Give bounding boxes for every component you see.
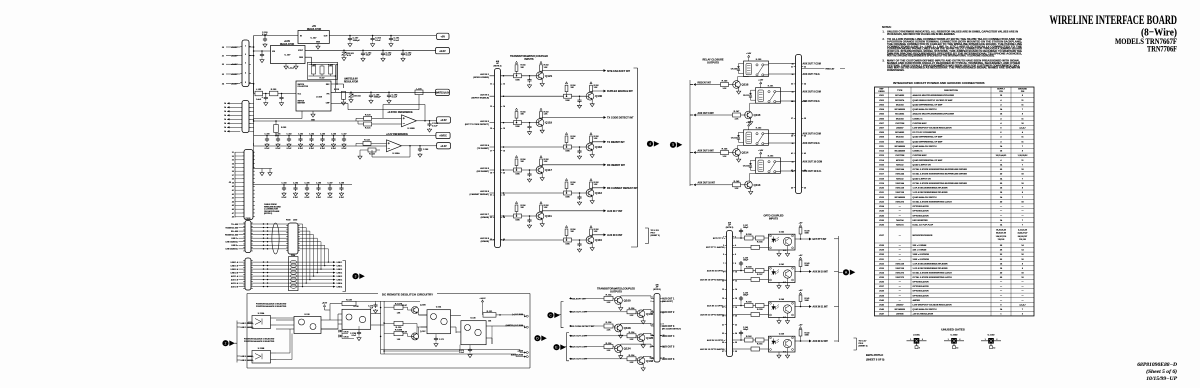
svg-text:U121: U121 [879,192,885,194]
wire collector Q100 [621,296,654,299]
svg-text:AUX IN 10 OPTO +: AUX IN 10 OPTO + [707,269,726,272]
wire opto row U-142 [733,238,769,247]
svg-text:LINE 4: LINE 4 [337,285,343,288]
svg-text:45: 45 [791,186,793,189]
svg-text:Q111: Q111 [545,214,552,218]
svg-text:MC3303: MC3303 [896,141,905,143]
svg-text:(NOTE 2): (NOTE 2) [653,289,661,291]
svg-text:AUX OUT 8 COM: AUX OUT 8 COM [803,91,821,94]
svg-text:CR-111: CR-111 [743,95,749,97]
svg-text:14: 14 [224,122,226,125]
svg-text:18: 18 [503,150,505,152]
resistor R118 [342,91,346,99]
svg-text:OCTAL 3-STATE NONINVERTING BUF: OCTAL 3-STATE NONINVERTING BUFFER/LINE D… [913,168,968,171]
svg-text:RX INHIBIT INT: RX INHIBIT INT [607,164,625,167]
svg-text:OPTOISOLATOR: OPTOISOLATOR [913,281,930,284]
svg-text:1: 1 [985,339,986,341]
svg-text:OUTPUTS: OUTPUTS [610,291,622,294]
svg-text:TX+ 600: TX+ 600 [231,224,238,226]
svg-text:RX CABINET REPEAT INT: RX CABINET REPEAT INT [607,187,638,190]
svg-text:37: 37 [232,175,234,177]
ground opto U-141 [779,278,788,284]
svg-text:LINE 3: LINE 3 [337,276,343,278]
svg-text:GND: GND [316,41,321,43]
svg-text:OCTAL 3-STATE NONINVERTING BUF: OCTAL 3-STATE NONINVERTING BUFFER/LINE D… [913,182,968,185]
resistor R-159 [756,304,765,308]
supply +14V K-103 [760,152,762,154]
capacitor C166 [369,93,373,98]
svg-text:(Sheet 5 of 6): (Sheet 5 of 6) [1146,368,1177,375]
resistor R139 deglitch [342,301,356,305]
svg-text:20: 20 [735,316,737,318]
svg-text:POSITION BALANCE 1 SELECTED: POSITION BALANCE 1 SELECTED [244,338,275,341]
svg-text:12: 12 [503,84,505,86]
svg-text:0.1uF: 0.1uF [406,55,412,57]
svg-text:74HC138: 74HC138 [895,187,905,190]
output arrow Q130 [604,90,607,93]
node 2 balloon [222,340,228,346]
svg-text:R-160: R-160 [746,302,753,304]
svg-text:EXT PTT 1 +: EXT PTT 1 + [713,238,726,240]
svg-text:LINE 2+: LINE 2+ [231,245,238,247]
svg-text:Q113: Q113 [754,183,761,187]
svg-text:U147: U147 [879,313,885,316]
svg-text:DUPLEX ENABLE INT: DUPLEX ENABLE INT [607,90,633,93]
svg-text:2: 2 [922,339,923,341]
svg-text:100K: 100K [515,126,520,128]
svg-text:41: 41 [791,152,793,155]
svg-text:R-106: R-106 [311,65,316,67]
svg-text:100K: 100K [515,174,520,176]
ground emitter Q110 [591,243,593,246]
svg-text:Q110: Q110 [595,238,602,242]
resistor base Q108 [604,324,613,328]
svg-text:TRN7706F: TRN7706F [1147,43,1177,53]
svg-text:34: 34 [792,90,794,93]
svg-text:14: 14 [224,106,226,109]
svg-text:U108: U108 [879,132,885,134]
svg-text:U107: U107 [879,128,885,130]
wire +2.2V ref input [254,143,387,146]
svg-text:(CABINET REPEAT): (CABINET REPEAT) [470,193,490,196]
net label +5VDC [436,132,450,138]
wire opto row U-139 [733,340,769,349]
svg-text:44: 44 [804,169,806,172]
resistor R123 [368,148,376,152]
svg-text:AUX OUT 10 COM: AUX OUT 10 COM [803,161,823,164]
svg-text:16: 16 [503,128,505,130]
transistor Q119 [536,119,544,127]
svg-text:35: 35 [791,101,793,103]
svg-text:0.1uF: 0.1uF [392,97,398,99]
svg-text:1000pF: 1000pF [374,97,382,99]
svg-text:100K: 100K [805,265,810,267]
svg-text:MC3303: MC3303 [896,137,905,139]
wire collector Q115 [750,103,761,111]
svg-text:74HC32: 74HC32 [896,177,904,180]
connector J101 [242,101,249,133]
svg-text:CUSTOM: CUSTOM [895,155,904,157]
svg-text:R-158: R-158 [746,267,753,269]
transistor Q110 [586,236,594,244]
capacitor C170 [373,303,377,308]
wire deglitch lower outputs [491,326,493,344]
twisted pair loops [290,260,296,263]
resistor array R106-R108 [308,62,338,79]
svg-text:AMPER: AMPER [913,299,921,302]
svg-text:3: 3 [355,275,357,279]
svg-text:CR-05: CR-05 [344,331,349,333]
wire J102 left bus [234,152,236,218]
svg-text:C-162: C-162 [287,133,292,135]
svg-text:AUX IN 8: AUX IN 8 [480,237,490,240]
svg-text:AUX IN 10 OPTO &#8722;: AUX IN 10 OPTO &#8722; [700,278,725,281]
svg-text:14: 14 [224,130,226,133]
wire fan from P300 [298,224,303,287]
svg-text:1-OF-8 DECODER/DEMULTIPLEXER: 1-OF-8 DECODER/DEMULTIPLEXER [913,192,949,194]
connector J104 lower [245,258,251,290]
svg-text:AUX OUT 4: AUX OUT 4 [662,335,675,338]
svg-text:R-134: R-134 [629,331,636,334]
svg-text:+14V: +14V [758,149,764,152]
svg-text:+14.2V: +14.2V [231,46,238,49]
svg-text:EXT PTT INT: EXT PTT INT [813,239,827,241]
svg-text:C-186: C-186 [316,182,321,184]
wire collector Q116 [738,77,749,81]
svg-text:U107: U107 [879,123,885,125]
svg-text:2,3,4,7: 2,3,4,7 [1019,127,1026,130]
svg-text:U-139: U-139 [779,334,784,336]
svg-text:L-100: L-100 [256,89,262,91]
wire deglitch internals [276,318,342,360]
svg-text:Q117: Q117 [545,168,552,172]
node C balloon [547,312,553,318]
wires into P300 [239,223,289,225]
svg-text:100pF: 100pF [743,259,749,261]
svg-text:PARENTHESES.: PARENTHESES. [887,69,905,72]
svg-text:118,126: 118,126 [998,239,1005,241]
svg-text:CR-104: CR-104 [354,95,361,98]
net label +9.6V [436,48,450,54]
svg-text:Q112: Q112 [595,191,602,195]
svg-text:C-185: C-185 [305,182,310,184]
svg-text:0.1uF: 0.1uF [352,335,356,337]
svg-text:LINE 3: LINE 3 [337,279,343,281]
svg-text:INPUTS: INPUTS [769,218,779,221]
supply riser U-141 [799,257,801,259]
svg-text:C-183: C-183 [282,182,287,184]
resistor base Q100 [604,296,613,300]
svg-text:MC3303: MC3303 [896,104,905,106]
svg-text:LINE 2 A: LINE 2 A [231,268,239,271]
sheet ref bracket opto [854,338,857,350]
svg-text:OCTAL 3-STATE NONINVERTING LAT: OCTAL 3-STATE NONINVERTING LATCH [913,271,953,274]
node E balloon [553,344,559,350]
svg-text:47: 47 [232,212,234,215]
svg-text:K-102: K-102 [756,128,762,130]
svg-text:AUX 1 B: AUX 1 B [231,278,239,281]
svg-text:12: 12 [735,280,737,282]
svg-text:36: 36 [792,74,794,76]
svg-text:C-171: C-171 [439,339,444,341]
svg-text:37: 37 [791,118,793,120]
svg-text:100K: 100K [565,151,570,153]
svg-text:7: 7 [652,335,653,337]
transistor Q113 [745,181,753,189]
svg-text:74HC244: 74HC244 [895,182,905,185]
svg-text:MC3303: MC3303 [896,118,905,120]
svg-text:AUX IN 7: AUX IN 7 [480,213,490,216]
svg-text:AUX IN 12 OPTO +: AUX IN 12 OPTO + [707,339,726,342]
svg-text:U-107: U-107 [285,55,292,57]
svg-text:27: 27 [722,351,724,353]
wire collector Q113 [750,173,761,181]
wire collector Q117 [542,165,603,167]
svg-text:MC14066B: MC14066B [895,308,906,311]
svg-text:Q130: Q130 [595,94,602,98]
svg-text:74HC244: 74HC244 [895,173,905,176]
svg-text:U-141: U-141 [779,263,784,266]
svg-text:LINE 1: LINE 1 [337,265,343,267]
svg-text:WIRELINE INTERFACE BOARD: WIRELINE INTERFACE BOARD [1050,12,1178,27]
ground emitter Q124 [620,352,622,355]
svg-text:33: 33 [232,160,234,162]
svg-text:AUX 1 A: AUX 1 A [231,275,239,278]
transistor Q121 [536,72,544,80]
svg-text:R-122: R-122 [364,140,371,142]
svg-text:CR-04: CR-04 [344,335,349,338]
svg-text:(RX INHIBIT): (RX INHIBIT) [477,171,490,173]
ground emitter Q100 [620,304,622,307]
svg-text:OUTPUTS: OUTPUTS [707,62,719,65]
svg-text:21: 21 [490,195,492,197]
wire balloon2 bus [235,321,241,363]
svg-text:44: 44 [232,200,234,203]
svg-text:QUAD ANALOG SWITCH: QUAD ANALOG SWITCH [913,308,938,311]
svg-text:R-130: R-130 [396,327,403,329]
svg-text:34,44,57,67: 34,44,57,67 [1018,232,1028,235]
svg-text:+14.2V: +14.2V [479,297,486,300]
svg-text:22: 22 [503,195,505,197]
svg-text:26: 26 [735,342,737,344]
svg-text:ANALOG MULTIPLEXER/DEMULTIPLEX: ANALOG MULTIPLEXER/DEMULTIPLEXER [913,94,955,97]
wire collector Q112 [592,188,603,190]
svg-text:REDCAT INT: REDCAT INT [698,81,712,84]
resistor base Q133 [627,357,636,361]
svg-text:R-107: R-107 [320,78,325,80]
ground emitter Q105 [642,317,644,320]
transistor Q105 [637,310,645,318]
svg-text:23: 23 [722,333,724,335]
transistor Q125 [637,334,645,342]
svg-text:22: 22 [222,64,224,66]
svg-text:U123: U123 [879,201,885,203]
svg-text:RX&#8722; 600: RX&#8722; 600 [225,234,238,236]
svg-text:N.C.: N.C. [783,317,787,319]
svg-text:ANALOG MULTIPLEXER/DEMULTIPLEX: ANALOG MULTIPLEXER/DEMULTIPLEXER [913,113,955,116]
svg-text:R-156: R-156 [746,234,753,236]
ground emitter Q117 [541,173,543,176]
svg-text:AUX IN 11 OPTO +: AUX IN 11 OPTO + [707,304,726,307]
svg-text:2: 2 [996,339,997,341]
svg-text:74HC138: 74HC138 [895,191,905,194]
svg-text:18: 18 [735,307,737,309]
svg-text:U-139A: U-139A [258,312,265,315]
wire +14.2V bus [249,36,298,147]
svg-text:84,102,107: 84,102,107 [1018,235,1027,238]
capacitor C160 [281,94,283,96]
resistor R120 [364,116,372,120]
svg-text:4.3V: 4.3V [347,54,352,57]
wire relay contacts K-101 [781,92,796,101]
svg-text:68P81090E88−D: 68P81090E88−D [1137,362,1177,368]
wire base Q113 [690,184,745,186]
svg-text:U101: U101 [879,95,885,97]
svg-text:INTEGRATED CIRCUIT POWER AND G: INTEGRATED CIRCUIT POWER AND GROUND CONN… [893,81,985,85]
svg-text:+14.2V: +14.2V [231,83,238,86]
resistor R-147 [733,113,741,117]
svg-text:U-138: U-138 [304,314,309,316]
svg-text:LOW DROPOUT VOLTAGE REGULATOR: LOW DROPOUT VOLTAGE REGULATOR [913,303,953,306]
svg-text:R-100: R-100 [271,89,277,91]
svg-text:Q100: Q100 [624,298,631,302]
svg-text:74HC373: 74HC373 [895,200,905,203]
svg-text:C-184: C-184 [293,181,298,184]
output arrow Q117 [604,163,607,166]
svg-text:AUX OUT 9 INT: AUX OUT 9 INT [698,149,715,152]
svg-text:3: 3 [245,63,246,65]
ground emitter Q125 [642,341,644,344]
ground emitter Q113 [750,188,752,190]
svg-text:CR-112: CR-112 [731,137,737,139]
svg-text:EMITTER: EMITTER [298,103,306,105]
svg-text:QUAD DIFFERENTIAL OP AMP: QUAD DIFFERENTIAL OP AMP [913,103,944,106]
wire collector Q124 [621,344,654,347]
wire collector Q119 [542,117,603,119]
svg-text:24: 24 [735,332,737,335]
wire +5V output [329,35,436,37]
svg-text:AUX OUT 4 INT: AUX OUT 4 INT [571,335,587,338]
svg-text:OPTOISOLATOR: OPTOISOLATOR [913,205,930,208]
svg-text:1,30,39,52: 1,30,39,52 [1018,155,1029,157]
svg-text:MC14066B: MC14066B [895,108,906,111]
supply +14V K-102 [748,124,750,126]
svg-text:QUAD 2-INPUT OR: QUAD 2-INPUT OR [913,177,932,180]
svg-text:DESIG: DESIG [878,91,885,93]
svg-text:74HC138: 74HC138 [895,267,905,270]
svg-text:U-135: U-135 [470,318,475,320]
resistor R-158 [745,269,754,273]
svg-text:46: 46 [232,208,234,211]
svg-text:U-106C: U-106C [913,334,920,336]
svg-text:PIN: PIN [999,91,1003,93]
svg-text:(+) LO 2644: (+) LO 2644 [512,313,524,316]
ground emitter Q118 [591,150,593,153]
svg-text:13: 13 [722,289,724,291]
svg-text:DUAL J-K FLIP-FLOP: DUAL J-K FLIP-FLOP [913,224,934,227]
svg-text:U103: U103 [879,104,885,106]
resistor R-156 [745,236,754,240]
svg-text:MC14066B: MC14066B [895,196,906,199]
node 3 balloon [352,273,358,279]
svg-text:32: 32 [804,66,806,68]
svg-text:C-164: C-164 [309,132,314,135]
svg-text:R-134: R-134 [606,342,613,345]
svg-text:7: 7 [652,311,653,313]
svg-text:U139: U139 [879,295,885,297]
svg-text:20: 20 [503,173,505,175]
svg-text:INPUTS: INPUTS [524,58,534,61]
net label -9.6V [436,89,450,95]
resistor lower U-141 [751,278,760,282]
right bus bracket inputs [631,68,638,247]
svg-text:3: 3 [650,301,651,303]
resistor R-160 [745,304,754,308]
svg-text:REDCAT: REDCAT [826,68,836,71]
svg-text:&#8722;9.6V: &#8722;9.6V [435,92,449,95]
svg-text:AUX IN 1: AUX IN 1 [480,73,490,76]
supply +14V K-101 [760,82,762,84]
svg-text:U126: U126 [879,215,885,217]
wire feedback U108 [254,95,419,119]
ground opto U-139 [779,348,788,354]
svg-text:(RX CODE DETECT): (RX CODE DETECT) [662,329,681,331]
svg-text:OPTOISOLATOR: OPTOISOLATOR [913,214,930,217]
svg-text:MICROPROCESSOR: MICROPROCESSOR [913,235,933,237]
svg-text:74HC74: 74HC74 [896,224,904,227]
svg-text:COLLECTOR: COLLECTOR [298,86,309,88]
svg-text:QUAD DIFFERENTIAL OP AMP: QUAD DIFFERENTIAL OP AMP [913,159,944,162]
transistor Q112 [586,189,594,197]
output arrow Q112 [604,186,607,189]
svg-text:1: 1 [245,46,246,48]
ground emitter Q119 [541,126,543,129]
svg-text:R-155: R-155 [757,241,764,243]
output arrow Q118 [604,140,607,143]
svg-text:Q116: Q116 [742,83,749,87]
wire REDCAT [802,68,846,70]
svg-text:AUX OUT 6 INT: AUX OUT 6 INT [571,358,587,361]
svg-text:C-187: C-187 [328,182,333,184]
svg-text:U-136: U-136 [353,306,358,308]
svg-text:U146: U146 [879,308,885,311]
svg-text:LINE 1: LINE 1 [337,262,343,264]
ground emitter Q114 [738,156,740,158]
svg-text:19: 19 [490,173,492,175]
svg-text:4,13,23,29: 4,13,23,29 [1018,228,1027,231]
svg-text:U-106D: U-106D [951,334,958,336]
ground emitter Q111 [541,219,543,222]
svg-text:+5V: +5V [799,255,803,257]
node 5 balloon [670,142,676,148]
wire base Q115 [690,114,745,116]
svg-text:(SPARE): (SPARE) [481,240,490,243]
svg-text:17: 17 [490,150,492,152]
svg-text:N.C.: N.C. [783,250,787,252]
wire collector Q125 [643,333,654,336]
svg-text:+5V: +5V [441,36,446,39]
svg-text:AUX OUT 8 INT: AUX OUT 8 INT [698,112,715,115]
svg-text:31: 31 [791,66,793,68]
resistor R-146 [721,151,729,155]
svg-text:POSITION BALANCE 2 SELECTED: POSITION BALANCE 2 SELECTED [244,340,275,343]
svg-text:+2.5V: +2.5V [440,119,447,122]
svg-text:AUX IN 7 INT: AUX IN 7 INT [607,210,623,213]
svg-text:5: 5 [245,82,246,84]
wire +5VDC row [254,135,436,137]
svg-text:CUSTOM: CUSTOM [895,123,904,125]
svg-text:100K: 100K [565,197,570,199]
